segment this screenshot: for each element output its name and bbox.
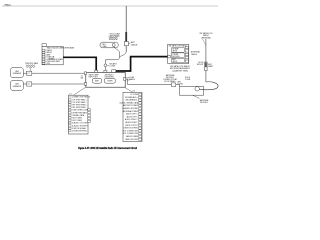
twisted pair label xyxy=(25,62,39,71)
svg-text:MODULE: MODULE xyxy=(172,56,180,58)
svg-text:ROOF PANEL: ROOF PANEL xyxy=(164,80,175,83)
XM antenna mast xyxy=(205,39,207,82)
antenna label callout xyxy=(203,39,206,45)
svg-text:CABLE: CABLE xyxy=(129,78,136,81)
svg-text:INPUT SIG: INPUT SIG xyxy=(89,76,99,78)
XM below label xyxy=(170,65,191,72)
svg-text:SPEAKER: SPEAKER xyxy=(13,85,22,88)
svg-text:7 SERIAL DATA: 7 SERIAL DATA xyxy=(72,114,85,117)
svg-text:WIRE: WIRE xyxy=(49,58,55,60)
svg-text:COAX: COAX xyxy=(102,45,108,48)
module top pin 2 xyxy=(104,70,107,72)
C2 right pin column xyxy=(139,93,142,140)
module top pin 1 xyxy=(95,70,98,72)
antenna connector circle xyxy=(104,64,107,67)
connector table C1 xyxy=(69,95,89,134)
svg-text:SHIELD DRAIN: SHIELD DRAIN xyxy=(126,135,139,138)
thick wire module to XM receiver xyxy=(116,57,168,71)
XM antenna left label xyxy=(197,62,204,66)
antenna base label xyxy=(129,41,138,46)
C1 table rows xyxy=(69,97,91,133)
XM right outside label xyxy=(191,51,200,56)
thick wire amplifier to module xyxy=(63,57,96,70)
module top pin 3 xyxy=(112,70,116,73)
svg-text:MODULE: MODULE xyxy=(200,102,208,104)
svg-text:AUDIO LEFT +: AUDIO LEFT + xyxy=(126,113,138,116)
svg-text:AUDIO RIGHT -: AUDIO RIGHT - xyxy=(125,121,138,124)
bottom wire label 1 xyxy=(129,76,136,81)
XM left pin xyxy=(168,55,171,58)
svg-text:Figure 4-37: 2006 XM Satellite: Figure 4-37: 2006 XM Satellite Radio RF … xyxy=(78,146,137,150)
XM antenna sleeve xyxy=(205,62,207,71)
inline connector A xyxy=(27,71,32,75)
VCIM module xyxy=(86,72,125,87)
svg-text:SPEAKER: SPEAKER xyxy=(13,72,22,75)
svg-text:ANTENNA POWER: ANTENNA POWER xyxy=(123,110,139,113)
roof module circle xyxy=(195,87,199,91)
module internal labels xyxy=(89,73,115,78)
svg-text:RECEIVER: RECEIVER xyxy=(105,76,115,78)
inline connector B xyxy=(27,82,32,86)
svg-text:CONN: CONN xyxy=(178,83,184,85)
svg-text:CABLE: CABLE xyxy=(131,44,138,47)
svg-text:CONN: CONN xyxy=(109,66,115,68)
antenna connector label xyxy=(107,62,117,67)
svg-text:5 GND SHIELD DRAIN: 5 GND SHIELD DRAIN xyxy=(72,109,91,112)
wire pill B to module xyxy=(23,83,84,85)
svg-text:BATTERY POWER: BATTERY POWER xyxy=(123,104,139,107)
amplifier block pin rows xyxy=(42,49,63,65)
speaker pill A xyxy=(10,68,23,78)
XM right pin column xyxy=(185,46,188,62)
amplifier connector block tab xyxy=(42,44,46,47)
svg-text:AUDIO LEFT -: AUDIO LEFT - xyxy=(127,115,139,118)
svg-text:ANTENNA: ANTENNA xyxy=(201,36,211,39)
XM internal box 3 xyxy=(172,58,185,63)
svg-text:TUNER: TUNER xyxy=(107,81,113,83)
svg-text:C2 CONN: C2 CONN xyxy=(130,94,139,96)
C2 callout xyxy=(125,87,136,92)
svg-text:6 PWR FEED BATT: 6 PWR FEED BATT xyxy=(72,111,88,114)
svg-text:7 SIG: 7 SIG xyxy=(45,63,50,65)
C1 right edge pins xyxy=(88,109,91,123)
amplifier connector block xyxy=(42,46,63,64)
XM roof antenna mast xyxy=(125,6,127,52)
module right pin xyxy=(123,78,125,81)
svg-text:12 MUTE SIGNAL: 12 MUTE SIGNAL xyxy=(72,127,86,130)
svg-text:10 AUDIO OUT LEFT: 10 AUDIO OUT LEFT xyxy=(72,122,90,125)
bottom wire label 3 xyxy=(178,80,184,85)
amplifier block inner label xyxy=(49,55,55,60)
svg-text:C1: C1 xyxy=(27,73,29,75)
GPS antenna label xyxy=(109,32,120,37)
bottom right wire xyxy=(126,79,180,86)
C1 callout xyxy=(69,87,85,95)
antenna coax loop xyxy=(199,82,218,90)
svg-text:MAST: MAST xyxy=(208,65,214,68)
module left pin 1 xyxy=(84,72,86,75)
wire pill A to module xyxy=(23,72,84,74)
roof line xyxy=(2,5,218,7)
svg-text:NOT CONNECTED: NOT CONNECTED xyxy=(123,133,139,135)
roof antenna module box xyxy=(180,86,204,95)
bottom wire label 4 xyxy=(185,77,191,81)
coax wire from pill xyxy=(114,47,120,57)
module internal pill 1 xyxy=(92,78,101,83)
XM antenna sleeve label xyxy=(208,63,214,68)
wire connector to module xyxy=(104,67,106,71)
svg-text:TWISTED PAIR: TWISTED PAIR xyxy=(25,62,39,65)
coax wire from mast xyxy=(120,52,127,57)
XM antenna label top xyxy=(199,32,213,39)
svg-text:CONN: CONN xyxy=(185,79,191,81)
svg-text:13 IGNITION FEED: 13 IGNITION FEED xyxy=(72,131,88,133)
svg-text:CASE GROUND: CASE GROUND xyxy=(125,138,139,141)
speaker pill B xyxy=(10,80,23,90)
svg-text:NOT CONNECTED: NOT CONNECTED xyxy=(123,130,139,132)
connector table C2 xyxy=(123,92,142,141)
svg-text:AUDIO RIGHT +: AUDIO RIGHT + xyxy=(125,118,138,121)
svg-text:INPUT: INPUT xyxy=(172,51,177,53)
coax wire to connector xyxy=(105,57,119,64)
cellular transceiver pill xyxy=(100,42,118,48)
module left outside label xyxy=(80,75,83,79)
svg-text:CHASSIS GROUND: CHASSIS GROUND xyxy=(122,107,139,110)
bottom wire inline connector xyxy=(171,83,175,87)
svg-text:MOUNT: MOUNT xyxy=(197,64,204,66)
svg-text:11 AUDIO IN RIGHT: 11 AUDIO IN RIGHT xyxy=(72,124,89,127)
svg-text:INPUT: INPUT xyxy=(172,61,177,63)
module internal pill 2 xyxy=(104,78,115,83)
svg-text:(QUARTER TRIM): (QUARTER TRIM) xyxy=(172,69,188,72)
svg-text:CABLE: CABLE xyxy=(191,53,198,56)
XM internal box 2 xyxy=(172,53,185,58)
svg-text:C2: C2 xyxy=(27,84,29,86)
XM internal box 1 xyxy=(172,48,185,53)
svg-text:IGNITION 3 FEED: IGNITION 3 FEED xyxy=(124,128,139,130)
svg-text:XM SATELLITE RADIO: XM SATELLITE RADIO xyxy=(169,45,188,48)
svg-text:CLASS 2 SERIAL DATA: CLASS 2 SERIAL DATA xyxy=(119,101,139,104)
antenna base box xyxy=(125,42,129,46)
XM receiver block xyxy=(168,44,189,63)
svg-text:XM DATA BUS +: XM DATA BUS + xyxy=(125,96,138,99)
bottom wire label 2 xyxy=(163,74,178,83)
module left pin 2 xyxy=(84,83,86,86)
C2 table rows xyxy=(119,94,139,141)
module right pin label xyxy=(127,77,132,81)
svg-text:XM DATA BUS -: XM DATA BUS - xyxy=(125,99,138,102)
svg-text:MUTE OUTPUT: MUTE OUTPUT xyxy=(125,125,139,127)
roof module callout xyxy=(193,95,210,104)
antenna zigzag symbol xyxy=(109,37,118,40)
